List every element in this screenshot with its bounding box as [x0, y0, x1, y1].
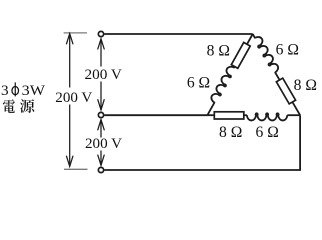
arrow down to middle terminal	[100, 82, 102, 110]
wire right vertical	[299, 115, 301, 170]
svg-text:200 V: 200 V	[84, 67, 122, 83]
wire lead coil to node (bottom side)	[287, 114, 300, 116]
label source kanji GEN (source)	[20, 99, 34, 113]
wire lead R to node (right side)	[292, 102, 300, 115]
label 200V line voltage (big arrow)	[54, 89, 93, 104]
wire lead coil to R (right side)	[275, 72, 280, 81]
wire lead coil to node (left side)	[207, 102, 214, 115]
arrowhead big up	[67, 34, 73, 44]
svg-text:8 Ω: 8 Ω	[207, 42, 230, 59]
wire lead R to L coil (left side)	[234, 66, 235, 68]
wire lead apex to coil (right side)	[253, 34, 256, 38]
resistor 8ohm right side	[276, 78, 295, 104]
svg-text:6 Ω: 6 Ω	[256, 124, 279, 141]
resistor 8ohm left side	[231, 42, 250, 68]
tick mark bottom	[64, 168, 88, 170]
arrowhead big down	[67, 156, 73, 166]
terminal node 1	[98, 31, 103, 36]
terminal node 2	[98, 112, 103, 117]
svg-text:8 Ω: 8 Ω	[219, 124, 242, 141]
inductor 6ohm bottom side	[247, 113, 287, 120]
wire lead R to coil (bottom side)	[244, 114, 247, 116]
wire lead apex to R (left side)	[247, 34, 253, 45]
arrow up to middle terminal	[100, 120, 102, 138]
label source kanji DEN (electric)	[3, 99, 15, 113]
tick mark top	[64, 32, 87, 34]
resistor 8ohm bottom side	[214, 112, 244, 119]
wire lead node to R (bottom side)	[207, 114, 214, 116]
svg-text:6 Ω: 6 Ω	[276, 42, 299, 59]
svg-text:3W: 3W	[22, 82, 46, 99]
inductor 6ohm left side	[210, 65, 236, 104]
svg-text:3: 3	[1, 82, 9, 99]
svg-text:6 Ω: 6 Ω	[187, 74, 210, 91]
arrow up to top terminal	[100, 39, 102, 67]
arrow down to bottom terminal	[100, 151, 102, 166]
arrow shaft big 200V (upper part)	[69, 34, 71, 88]
arrow shaft big 200V (lower part)	[69, 105, 71, 167]
svg-text:200 V: 200 V	[85, 136, 122, 152]
wire middle phase	[104, 114, 207, 116]
svg-text:200 V: 200 V	[55, 90, 92, 106]
svg-text:8 Ω: 8 Ω	[294, 77, 317, 94]
wire top phase	[104, 33, 252, 35]
terminal node 3	[98, 167, 103, 172]
inductor 6ohm right side	[253, 35, 280, 73]
wire bottom phase	[104, 169, 301, 171]
